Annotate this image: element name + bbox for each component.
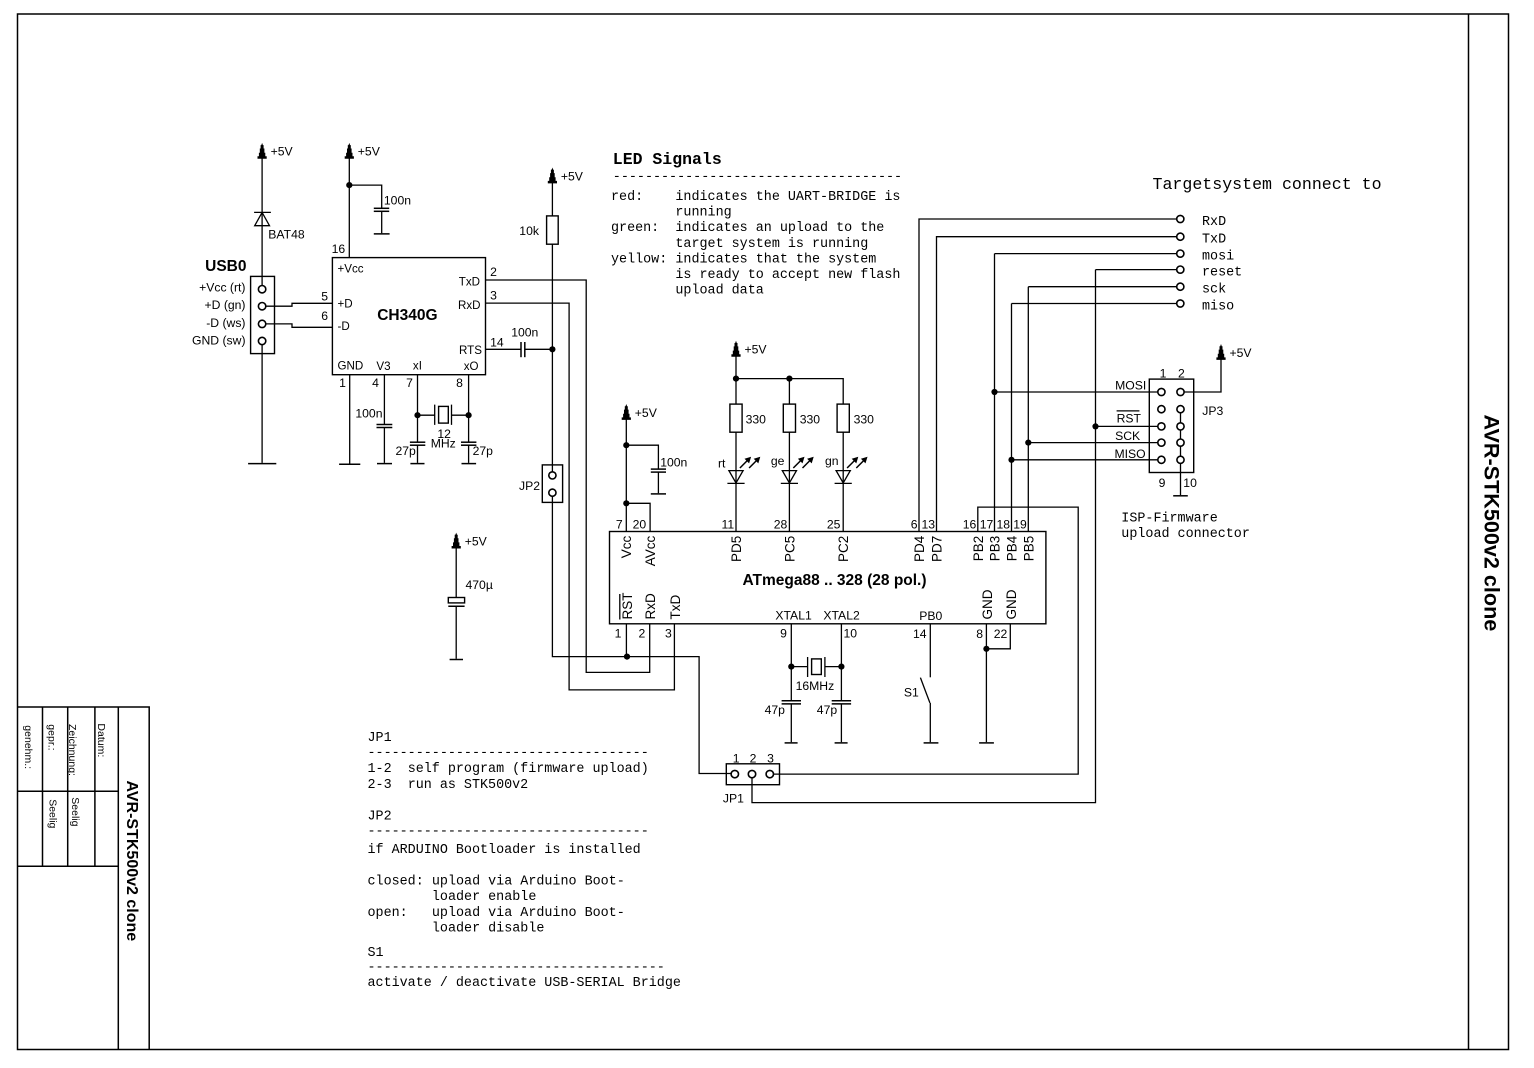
svg-text:27p: 27p xyxy=(473,444,494,458)
title block outline xyxy=(18,707,150,1050)
svg-text:16: 16 xyxy=(963,518,977,532)
wire PB5 pin19 to sck xyxy=(1027,287,1029,532)
wire JP3 pin2 to +5V xyxy=(1184,359,1221,393)
target pad reset xyxy=(1177,266,1184,273)
resistor 330 (gn) xyxy=(837,404,849,432)
svg-text:RxD: RxD xyxy=(643,593,658,619)
svg-text:+Vcc (rt): +Vcc (rt) xyxy=(199,281,245,295)
svg-text:1: 1 xyxy=(733,751,740,765)
svg-text:GND: GND xyxy=(1004,589,1019,619)
svg-text:upload connector: upload connector xyxy=(1121,527,1250,542)
jumper JP1 xyxy=(726,764,779,785)
svg-text:if ARDUINO Bootloader is insta: if ARDUINO Bootloader is installed xyxy=(368,843,641,858)
svg-text:running: running xyxy=(675,206,731,221)
wire MOSI to JP3 xyxy=(995,391,1158,393)
wire GND pin22 jog xyxy=(986,624,1010,649)
LED gn xyxy=(835,471,852,484)
svg-text:100n: 100n xyxy=(355,407,382,421)
capacitor 47p (XTAL1) xyxy=(782,700,801,702)
svg-text:LED Signals: LED Signals xyxy=(613,150,722,169)
junction xyxy=(983,646,989,652)
ground (100n Vcc) xyxy=(374,233,390,235)
junction xyxy=(786,376,792,382)
wire PB0 pin14 to switch xyxy=(929,624,931,678)
svg-text:red:: red: xyxy=(611,190,643,205)
wire 10k to JP2 xyxy=(551,244,553,472)
svg-text:XTAL2: XTAL2 xyxy=(823,609,860,623)
svg-text:target system is running: target system is running xyxy=(675,237,868,252)
svg-text:V3: V3 xyxy=(376,360,390,373)
ground (CH340G GND) xyxy=(339,463,360,465)
wire junction to 100n AVcc xyxy=(626,445,658,469)
svg-text:2: 2 xyxy=(1178,366,1185,380)
junction xyxy=(838,664,844,670)
svg-text:PB2: PB2 xyxy=(971,536,986,562)
switch S1 blade xyxy=(920,678,930,703)
capacitor 470u electrolytic xyxy=(448,598,464,603)
wire target reset xyxy=(1096,269,1177,271)
wire switch to ground xyxy=(929,703,931,742)
svg-text:27p: 27p xyxy=(396,444,417,458)
wire PB4 pin18 to miso xyxy=(1011,304,1013,532)
svg-text:JP3: JP3 xyxy=(1202,404,1223,418)
junction xyxy=(733,376,739,382)
svg-text:7: 7 xyxy=(616,517,623,531)
svg-text:xO: xO xyxy=(464,360,479,373)
svg-text:rt: rt xyxy=(718,456,726,470)
svg-text:11: 11 xyxy=(722,518,735,532)
wire CH340G TxD pin2 to ATmega RxD pin2 xyxy=(486,280,650,672)
svg-text:indicates that the system: indicates that the system xyxy=(675,252,876,267)
svg-text:10: 10 xyxy=(1183,476,1197,490)
wire LED ge to pin28 xyxy=(788,483,790,531)
wire pin16 to +5V xyxy=(348,157,350,258)
junction xyxy=(623,442,629,448)
svg-text:2: 2 xyxy=(490,265,497,279)
capacitor 100n (V3) xyxy=(377,424,393,426)
svg-text:PB3: PB3 xyxy=(988,536,1003,562)
svg-text:47p: 47p xyxy=(765,703,786,717)
wire RST to JP3 xyxy=(1096,425,1158,427)
target pad sck xyxy=(1177,283,1184,290)
svg-text:28: 28 xyxy=(774,518,788,532)
svg-text:2: 2 xyxy=(750,751,757,765)
wire XTAL1 pin9 down xyxy=(790,624,792,701)
svg-text:PC5: PC5 xyxy=(782,536,797,562)
+5V supply symbol (CH340G Vcc) xyxy=(345,143,381,159)
svg-text:upload via Arduino Boot-: upload via Arduino Boot- xyxy=(432,874,625,889)
svg-text:ATmega88 .. 328 (28 pol.): ATmega88 .. 328 (28 pol.) xyxy=(742,572,926,589)
svg-text:Zeichnung:: Zeichnung: xyxy=(66,724,78,776)
wire 100n to ground xyxy=(657,472,659,493)
right title column line xyxy=(1468,14,1470,1050)
svg-text:------------------------------: ------------------------------------- xyxy=(368,961,665,976)
wire PD7 pin13 to target TxD xyxy=(937,237,1177,532)
capacitor 100n (RTS, series) xyxy=(520,342,522,357)
+5V supply symbol (JP3) xyxy=(1216,344,1252,360)
crystal 12MHz xyxy=(418,405,469,425)
svg-text:1: 1 xyxy=(339,376,346,390)
ground (USB) xyxy=(248,463,276,465)
+5V supply symbol (USB) xyxy=(258,143,294,159)
+5V supply symbol (LED rail) xyxy=(731,341,767,357)
wire MISO to JP3 xyxy=(1012,459,1158,461)
ground (27p right) xyxy=(462,463,477,465)
wire 47p to ground xyxy=(840,704,842,742)
IC ATmega88..328 xyxy=(610,532,1046,624)
svg-text:19: 19 xyxy=(1013,518,1027,532)
capacitor 47p (XTAL2) xyxy=(832,700,851,702)
LED ge xyxy=(781,471,798,484)
target pad TxD xyxy=(1177,233,1184,240)
svg-text:22: 22 xyxy=(994,627,1008,641)
wire target miso xyxy=(1012,303,1177,305)
wire 27p to ground xyxy=(468,445,470,463)
wire LED rt to pin11 xyxy=(735,483,737,531)
svg-text:9: 9 xyxy=(1159,476,1166,490)
svg-text:330: 330 xyxy=(800,412,821,426)
svg-text:10k: 10k xyxy=(519,224,540,238)
junction xyxy=(788,664,794,670)
wire USB +D to CH340G pin5 xyxy=(266,303,333,306)
svg-text:14: 14 xyxy=(913,627,927,641)
svg-text:Targetsystem connect to: Targetsystem connect to xyxy=(1153,175,1382,194)
svg-text:S1: S1 xyxy=(368,946,384,961)
svg-text:ge: ge xyxy=(771,454,785,468)
connector JP3 xyxy=(1149,379,1193,472)
svg-text:MOSI: MOSI xyxy=(1115,379,1146,393)
svg-text:6: 6 xyxy=(321,309,328,323)
wire target mosi xyxy=(995,253,1177,255)
wire XTAL2 pin10 down xyxy=(840,624,842,701)
capacitor 27p (xO) xyxy=(461,441,476,443)
svg-text:100n: 100n xyxy=(660,456,687,470)
svg-text:1: 1 xyxy=(615,626,622,640)
svg-text:------------------------------: ------------------------------------ xyxy=(613,170,902,185)
svg-text:Seelig: Seelig xyxy=(47,799,59,828)
ground (100n AVcc) xyxy=(651,493,666,495)
capacitor 27p (xI) xyxy=(410,441,425,443)
svg-text:-D: -D xyxy=(338,320,350,333)
svg-text:GND (sw): GND (sw) xyxy=(192,333,245,347)
connector USB0 xyxy=(251,276,275,353)
wire target sck xyxy=(1028,286,1176,288)
svg-text:Vcc: Vcc xyxy=(619,535,634,558)
svg-text:gepr.:: gepr.: xyxy=(46,724,58,750)
wire V3 pin4 to 100n xyxy=(383,375,385,425)
svg-text:470µ: 470µ xyxy=(466,578,493,592)
svg-text:RST: RST xyxy=(1117,412,1142,426)
target pad mosi xyxy=(1177,250,1184,257)
svg-text:3: 3 xyxy=(665,626,672,640)
svg-text:TxD: TxD xyxy=(459,275,480,288)
svg-text:MHz: MHz xyxy=(431,437,456,451)
wire xO pin8 down xyxy=(468,375,470,443)
svg-text:PB5: PB5 xyxy=(1021,536,1036,562)
junction xyxy=(549,346,555,352)
svg-text:2-3: 2-3 xyxy=(368,778,392,793)
wire +5V to 470u xyxy=(455,547,457,598)
svg-text:upload via Arduino Boot-: upload via Arduino Boot- xyxy=(432,906,625,921)
svg-text:AVcc: AVcc xyxy=(643,535,658,566)
junction (MOSI) xyxy=(991,389,997,395)
ground (V3 100n) xyxy=(377,463,392,465)
svg-text:AVR-STK500v2 clone: AVR-STK500v2 clone xyxy=(1480,415,1505,632)
ground (pin8/22) xyxy=(979,742,994,744)
svg-text:PC2: PC2 xyxy=(836,536,851,562)
svg-text:16: 16 xyxy=(332,242,346,256)
svg-text:xI: xI xyxy=(413,359,422,372)
svg-text:reset: reset xyxy=(1202,266,1242,281)
wire RST pin1 stub xyxy=(625,624,627,657)
svg-text:100n: 100n xyxy=(511,325,538,339)
wire CH340G GND pin1 to ground xyxy=(349,375,351,464)
+5V supply symbol (10k pullup) xyxy=(548,168,584,184)
svg-text:9: 9 xyxy=(780,627,787,641)
svg-text:+Vcc: +Vcc xyxy=(338,263,364,276)
svg-text:------------------------------: ----------------------------------- xyxy=(368,825,649,840)
svg-text:JP2: JP2 xyxy=(368,809,392,824)
ground (JP3) xyxy=(1173,495,1188,497)
resistor 10k xyxy=(547,216,559,244)
wire 27p to ground xyxy=(417,445,419,463)
svg-text:GND: GND xyxy=(338,359,364,372)
svg-text:JP1: JP1 xyxy=(723,791,744,805)
svg-text:gn: gn xyxy=(825,454,839,468)
svg-text:RxD: RxD xyxy=(458,299,481,312)
wire 330 to LED gn xyxy=(842,432,844,483)
svg-text:13: 13 xyxy=(921,518,935,532)
svg-text:2: 2 xyxy=(639,626,646,640)
svg-text:is ready to accept new flash: is ready to accept new flash xyxy=(675,268,900,283)
junction xyxy=(346,182,352,188)
ground (47p left) xyxy=(785,742,798,744)
wire +5V to diode xyxy=(261,157,263,285)
svg-text:run as STK500v2: run as STK500v2 xyxy=(408,778,529,793)
capacitor 100n (AVcc) xyxy=(651,468,666,470)
target pad miso xyxy=(1177,300,1184,307)
svg-text:PB4: PB4 xyxy=(1005,535,1020,561)
svg-text:upload data: upload data xyxy=(675,284,763,299)
wire GND pin8 to ground xyxy=(985,624,987,742)
svg-text:TxD: TxD xyxy=(668,595,683,620)
junction (SCK) xyxy=(1025,440,1031,446)
svg-text:green:: green: xyxy=(611,221,659,236)
+5V supply symbol (470u) xyxy=(452,533,488,549)
svg-text:ISP-Firmware: ISP-Firmware xyxy=(1121,512,1217,527)
crystal 16MHz xyxy=(791,657,841,677)
svg-text:17: 17 xyxy=(980,518,994,532)
svg-text:16MHz: 16MHz xyxy=(796,679,835,693)
wire 330 to LED rt xyxy=(735,432,737,483)
ground (470u) xyxy=(450,659,463,661)
wire PB3 pin17 to mosi xyxy=(994,254,996,532)
svg-text:100n: 100n xyxy=(384,194,411,208)
svg-text:self program (firmware upload): self program (firmware upload) xyxy=(408,762,649,777)
resistor 330 (ge) xyxy=(783,404,795,432)
svg-text:6: 6 xyxy=(911,518,918,532)
wire USB -D to CH340G pin6 xyxy=(266,324,333,327)
svg-text:------------------------------: ----------------------------------- xyxy=(368,746,649,761)
junction xyxy=(623,500,629,506)
capacitor 100n (CH340G Vcc) xyxy=(374,207,389,209)
svg-text:5: 5 xyxy=(321,290,328,304)
svg-text:RxD: RxD xyxy=(1202,215,1226,230)
svg-text:loader disable: loader disable xyxy=(432,922,545,937)
wire USB GND down xyxy=(261,345,263,463)
svg-text:loader enable: loader enable xyxy=(432,890,536,905)
LED supply rail wire xyxy=(736,379,843,405)
svg-text:20: 20 xyxy=(633,517,647,531)
svg-text:activate / deactivate USB-SERI: activate / deactivate USB-SERIAL Bridge xyxy=(368,976,681,991)
svg-text:RTS: RTS xyxy=(459,344,482,357)
svg-text:7: 7 xyxy=(406,376,413,390)
LED rt xyxy=(727,471,744,484)
svg-text:1-2: 1-2 xyxy=(368,762,392,777)
svg-text:1: 1 xyxy=(1160,366,1167,380)
svg-text:JP2: JP2 xyxy=(519,479,540,493)
svg-text:miso: miso xyxy=(1202,300,1234,315)
svg-text:PD7: PD7 xyxy=(930,536,945,562)
wire JP3 GND chain xyxy=(1180,409,1182,495)
svg-text:genehm.:: genehm.: xyxy=(22,725,34,769)
svg-text:XTAL1: XTAL1 xyxy=(775,609,812,623)
wire JP2 to RST net corner xyxy=(552,496,731,773)
junction (RST at ATmega pin1) xyxy=(624,654,630,660)
wire junction to 100n xyxy=(349,185,381,208)
svg-text:RST: RST xyxy=(620,593,635,620)
svg-text:47p: 47p xyxy=(817,703,838,717)
svg-text:indicates an upload to the: indicates an upload to the xyxy=(675,221,884,236)
wire JP1 pin2 to reset net xyxy=(752,270,1096,803)
svg-text:4: 4 xyxy=(372,376,379,390)
svg-text:+D (gn): +D (gn) xyxy=(205,298,246,312)
wire LED gn to pin25 xyxy=(842,483,844,531)
jumper JP2 xyxy=(542,465,562,503)
wire 470u to ground xyxy=(455,606,457,659)
svg-text:-D (ws): -D (ws) xyxy=(206,316,245,330)
svg-text:PD5: PD5 xyxy=(729,536,744,562)
svg-text:sck: sck xyxy=(1202,283,1226,298)
svg-text:indicates the UART-BRIDGE is: indicates the UART-BRIDGE is xyxy=(675,190,900,205)
svg-text:GND: GND xyxy=(980,589,995,619)
ground (27p left) xyxy=(410,463,424,465)
svg-text:mosi: mosi xyxy=(1202,250,1234,265)
wire +5V to 10k xyxy=(551,182,553,216)
svg-text:Seelig: Seelig xyxy=(69,797,81,826)
svg-text:PD4: PD4 xyxy=(912,535,927,562)
ground (47p right) xyxy=(835,742,848,744)
svg-text:AVR-STK500v2 clone: AVR-STK500v2 clone xyxy=(123,781,140,942)
svg-text:SCK: SCK xyxy=(1115,429,1140,443)
ground (S1) xyxy=(924,742,939,744)
svg-text:3: 3 xyxy=(490,288,497,302)
wire xI pin7 down xyxy=(417,375,419,443)
wire SCK to JP3 xyxy=(1028,442,1158,444)
junction (MISO) xyxy=(1008,457,1014,463)
svg-text:closed:: closed: xyxy=(368,874,424,889)
svg-text:BAT48: BAT48 xyxy=(268,228,305,242)
junction xyxy=(466,412,472,418)
junction xyxy=(414,412,420,418)
svg-text:8: 8 xyxy=(976,627,983,641)
svg-text:S1: S1 xyxy=(904,685,919,699)
svg-text:PB0: PB0 xyxy=(919,609,942,623)
svg-text:8: 8 xyxy=(456,376,463,390)
svg-text:USB0: USB0 xyxy=(205,258,246,275)
svg-text:330: 330 xyxy=(746,412,767,426)
svg-text:18: 18 xyxy=(996,518,1010,532)
wire 330 to LED ge xyxy=(788,432,790,483)
svg-text:open:: open: xyxy=(368,906,408,921)
svg-text:TxD: TxD xyxy=(1202,233,1226,248)
svg-text:MISO: MISO xyxy=(1115,447,1146,461)
wire +5V to LED rail xyxy=(735,355,737,379)
wire 100n V3 to ground xyxy=(383,428,385,463)
junction (RST JP3) xyxy=(1092,423,1098,429)
RST overline xyxy=(619,594,621,620)
diode BAT48 (schottky) xyxy=(254,212,271,225)
resistor 330 (rt) xyxy=(730,404,742,432)
svg-text:JP1: JP1 xyxy=(368,731,392,746)
wire 47p to ground xyxy=(790,704,792,742)
target pad RxD xyxy=(1177,215,1184,222)
wire JP1 pin3 to PB2 pin16 xyxy=(774,507,1079,774)
svg-text:25: 25 xyxy=(827,518,841,532)
wire CH340G RxD pin3 to ATmega TxD pin3 xyxy=(486,303,675,690)
wire 100n to ground xyxy=(381,211,383,233)
wire PD4 pin6 to target RxD xyxy=(919,219,1177,532)
svg-text:3: 3 xyxy=(767,751,774,765)
svg-text:yellow:: yellow: xyxy=(611,252,667,267)
svg-text:Datum:: Datum: xyxy=(95,723,107,757)
IC CH340G xyxy=(332,258,485,375)
svg-text:+D: +D xyxy=(338,298,353,311)
wire capacitor to RST net xyxy=(525,348,553,350)
+5V supply symbol (AVcc) xyxy=(622,404,658,420)
svg-text:330: 330 xyxy=(854,412,875,426)
wire junction to AVcc pin20 xyxy=(626,503,650,531)
wire +5V to Vcc pin7 xyxy=(625,418,627,532)
svg-text:CH340G: CH340G xyxy=(377,307,437,324)
svg-text:14: 14 xyxy=(490,336,504,350)
svg-text:10: 10 xyxy=(844,627,858,641)
wire RTS pin14 to capacitor xyxy=(486,348,522,350)
